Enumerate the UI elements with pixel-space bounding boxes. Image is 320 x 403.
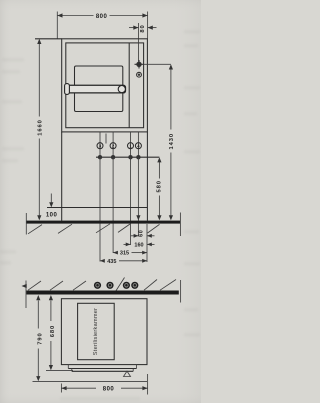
extension line x=138.5 above unit xyxy=(138,23,140,39)
dim 435 xyxy=(100,260,105,262)
door front step lines xyxy=(68,368,136,370)
svg-text:60: 60 xyxy=(138,230,144,237)
dim 800 bottom line xyxy=(61,387,96,389)
unit inner rect (face panel) xyxy=(66,43,144,128)
handle left cap xyxy=(65,84,70,95)
circled number 2 xyxy=(110,143,116,149)
unit outer rect xyxy=(62,39,148,132)
circled number 3 xyxy=(97,143,103,149)
svg-text:580: 580 xyxy=(157,180,163,192)
dim 60 xyxy=(131,235,139,237)
dim 315 xyxy=(113,252,117,254)
svg-text:800: 800 xyxy=(96,14,108,20)
unit top leader to 1660 dim xyxy=(35,38,62,40)
connection dots xyxy=(98,155,102,159)
wall left end vertical xyxy=(25,281,27,309)
floor left end vertical xyxy=(25,213,27,235)
svg-text:435: 435 xyxy=(107,259,116,265)
wall band (thick) xyxy=(26,291,179,295)
connection point symbol (filled cross dot) xyxy=(136,62,141,67)
wall right end vertical xyxy=(180,280,182,303)
svg-text:680: 680 xyxy=(50,325,56,337)
leader 680 to unit front xyxy=(46,369,73,371)
circled number 4 xyxy=(135,143,141,149)
dim 800 top line xyxy=(57,15,93,17)
svg-text:1430: 1430 xyxy=(169,133,175,150)
pipe line x=138.5 inside unit xyxy=(138,39,140,62)
dots row leader line xyxy=(96,156,159,158)
ring symbol below connection xyxy=(137,72,142,77)
plinth line xyxy=(47,207,147,209)
unit rect plan xyxy=(61,299,147,365)
ghost bleed-through text smudges xyxy=(0,30,200,400)
door rect xyxy=(75,66,123,112)
dim 800 bottom extension lines xyxy=(60,384,62,393)
pipe circles on wall xyxy=(94,282,101,289)
svg-text:800: 800 xyxy=(103,386,115,392)
svg-text:315: 315 xyxy=(120,251,129,257)
handle right cap xyxy=(118,86,125,93)
unit side lines down to plinth xyxy=(61,132,63,221)
floor hatch strokes xyxy=(28,225,42,234)
dim 1660 xyxy=(38,42,40,117)
dim 1430 xyxy=(170,68,172,130)
dim 100 arrow line xyxy=(50,194,52,204)
dim 80 arrows xyxy=(129,27,139,29)
svg-text:1660: 1660 xyxy=(38,119,44,136)
right reference line below floor xyxy=(146,224,148,262)
svg-text:160: 160 xyxy=(134,242,143,248)
dim 790 xyxy=(37,301,39,329)
centering triangle marker xyxy=(124,371,131,376)
dim 800 top arrows xyxy=(57,13,62,17)
dim 580 xyxy=(158,160,160,179)
floor right end vertical xyxy=(179,213,181,237)
short stub line inside lower cavity xyxy=(105,134,107,144)
svg-text:80: 80 xyxy=(140,24,146,32)
svg-text:Sterilisierkammer: Sterilisierkammer xyxy=(93,308,99,355)
paper background xyxy=(0,0,201,403)
dim 680 xyxy=(50,301,52,322)
chamber rect xyxy=(78,303,115,359)
face divider line xyxy=(128,43,130,128)
pipe lines from unit bottom to connection dots xyxy=(99,132,101,157)
pipes below dots to dim rows xyxy=(99,157,101,261)
arrow on pipe 4 at floor xyxy=(136,215,140,220)
circled number 1 xyxy=(128,143,134,149)
extension line right of 800 top dim xyxy=(147,12,149,39)
wall hatch strokes xyxy=(28,281,41,290)
svg-text:100: 100 xyxy=(46,213,58,219)
floor line (thick) xyxy=(26,221,180,224)
leader from connection to 1430 dim xyxy=(144,63,171,65)
handle bar xyxy=(65,85,126,93)
extension line left of 800 top dim xyxy=(56,12,58,39)
small left arrow on wall end xyxy=(22,284,27,288)
svg-text:790: 790 xyxy=(38,332,44,344)
dim 160 xyxy=(124,243,131,245)
leader 790 baseline xyxy=(33,381,148,383)
